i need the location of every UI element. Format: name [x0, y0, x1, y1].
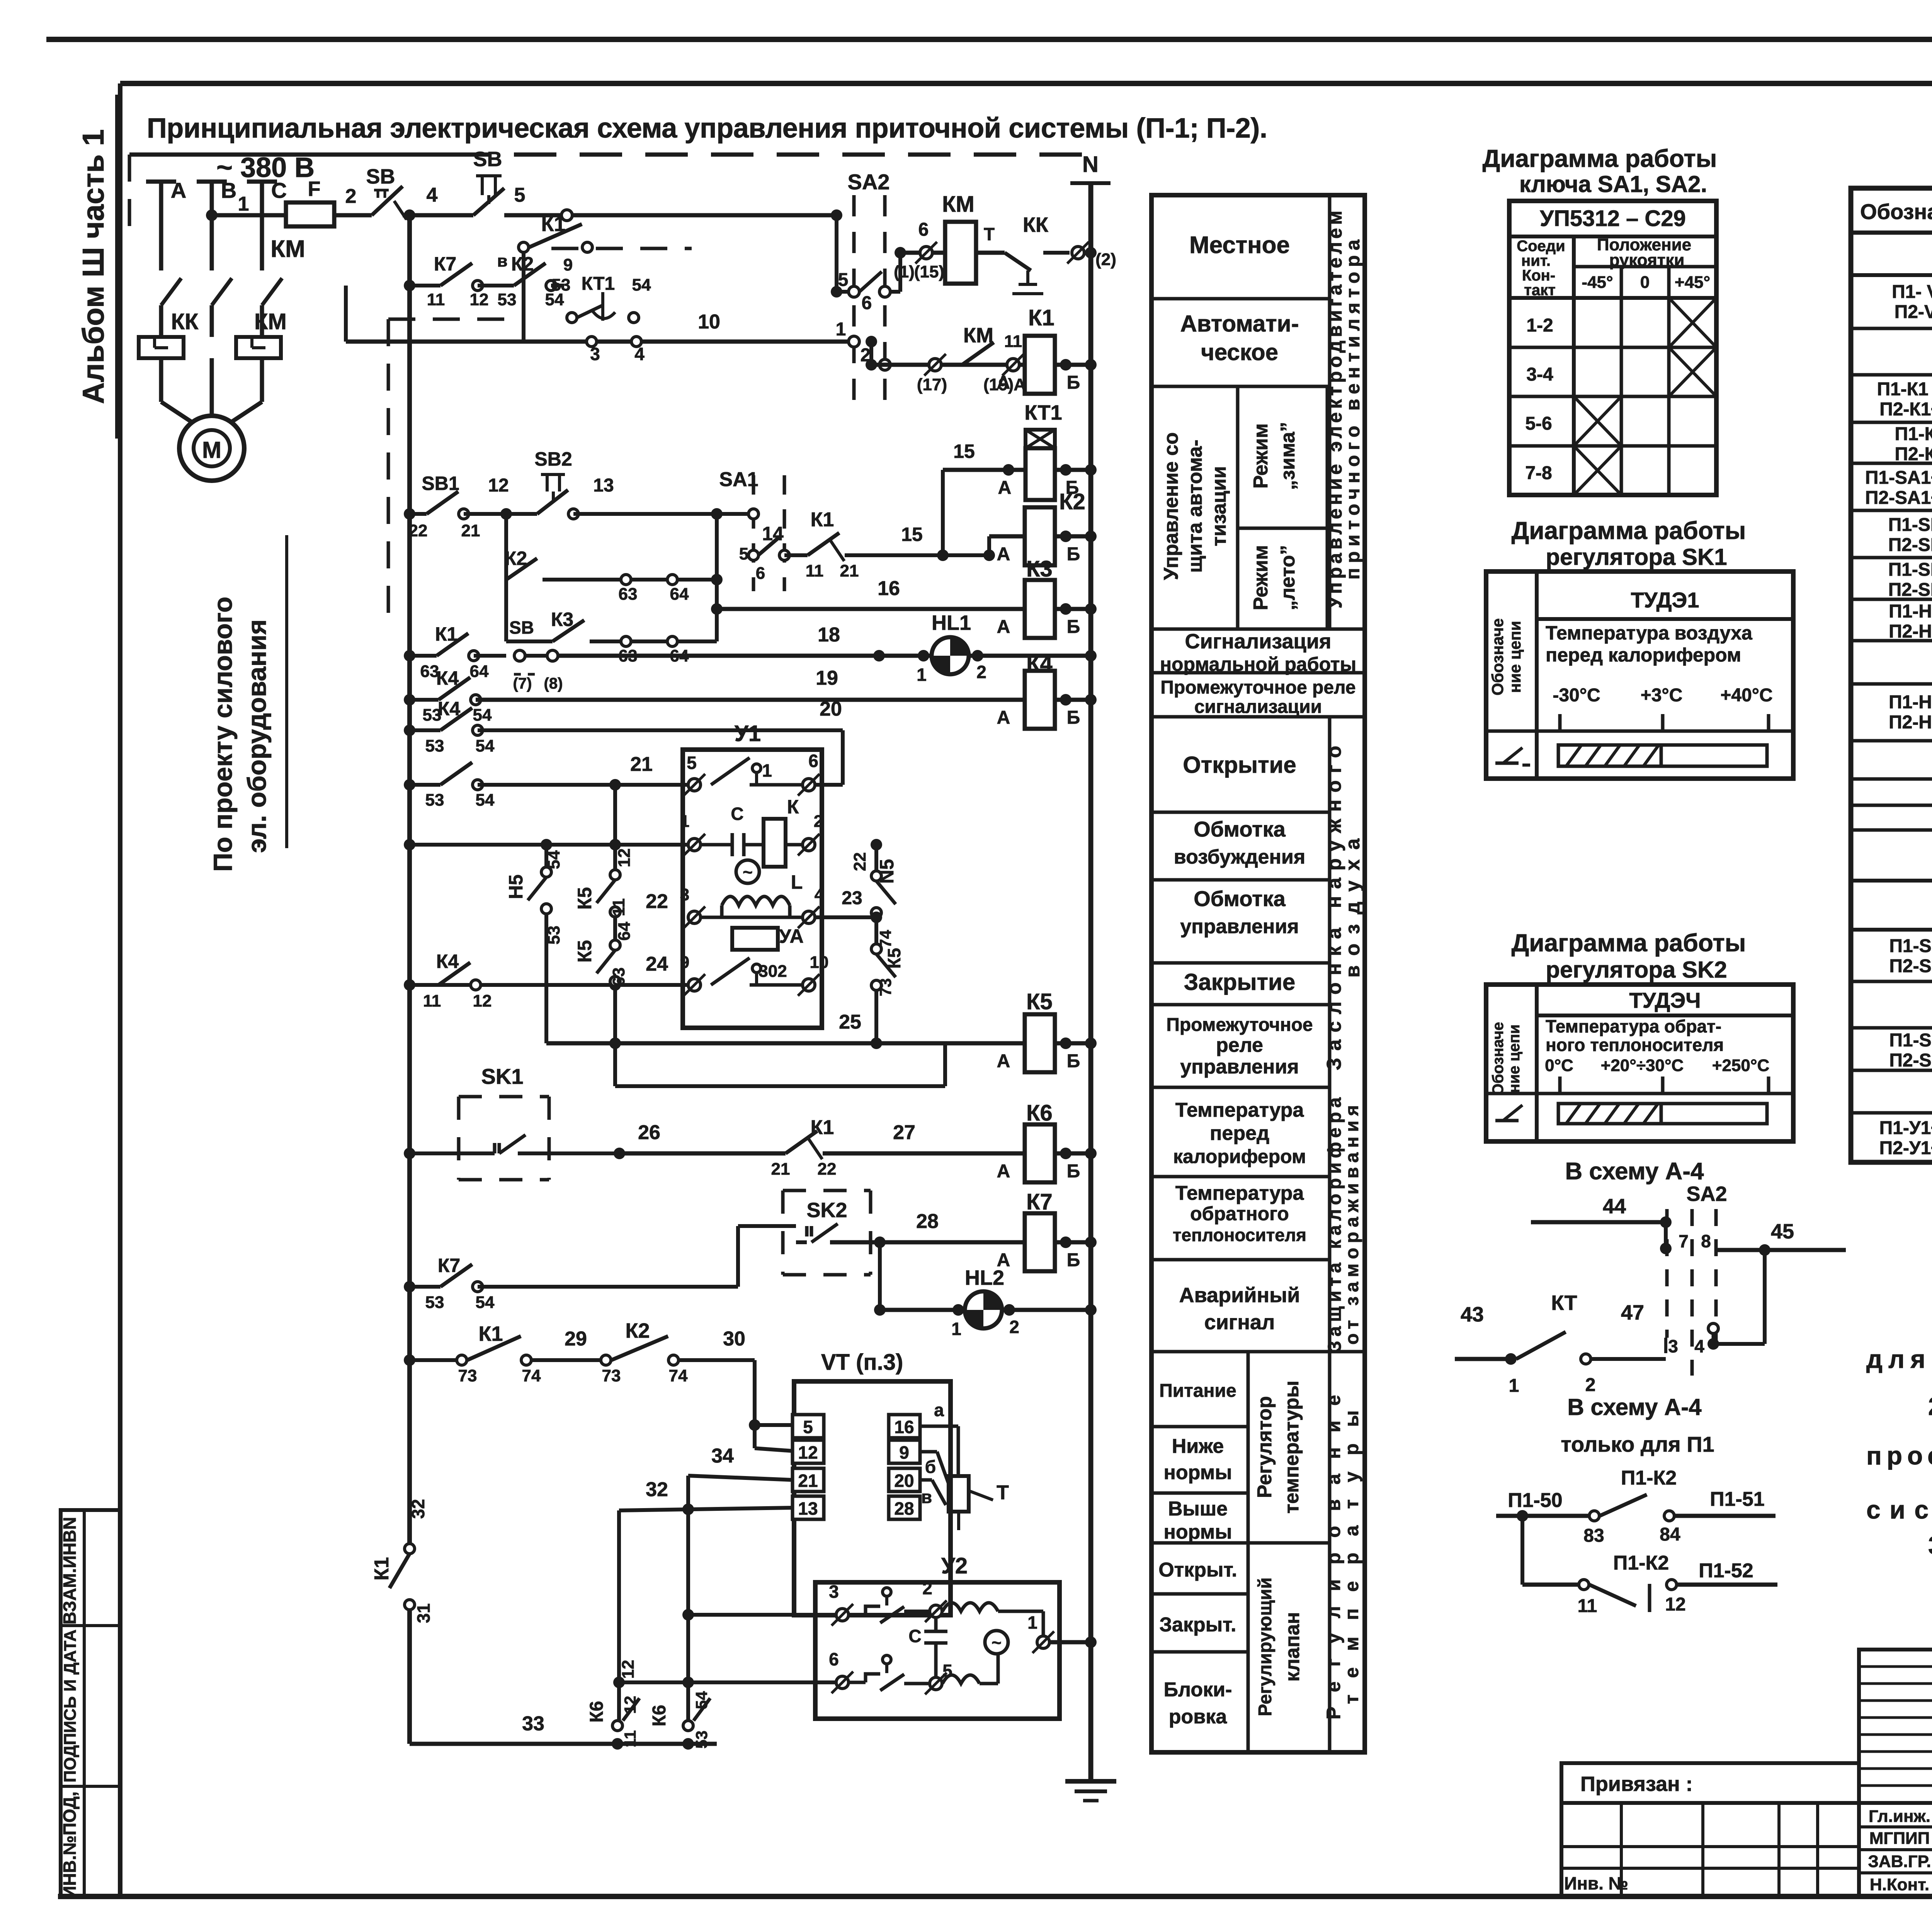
- svg-text:П1-НL2: П1-НL2: [1889, 601, 1932, 622]
- svg-text:температуры: температуры: [1281, 1381, 1303, 1514]
- svg-text:Гл.инж.: Гл.инж.: [1869, 1807, 1930, 1826]
- svg-text:П1-SК2: П1-SК2: [1889, 1030, 1932, 1051]
- rung 4513 wire 33: [410, 1742, 717, 1746]
- svg-text:SB2: SB2: [534, 448, 572, 470]
- rung 2031 wire 21: [404, 779, 415, 791]
- wire 5 to SA2: [561, 210, 572, 221]
- svg-text:Б: Б: [1067, 1250, 1080, 1270]
- svg-text:5-6: 5-6: [1525, 413, 1552, 434]
- svg-text:П1-51: П1-51: [1710, 1488, 1764, 1510]
- frame top rule: [120, 81, 1932, 86]
- contact K1 break on rung 2985: [786, 1131, 817, 1153]
- svg-text:К1: К1: [371, 1557, 393, 1581]
- table row ending 2016: [1851, 777, 1932, 781]
- svg-text:6: 6: [829, 1649, 839, 1669]
- svg-text:в: в: [921, 1487, 932, 1507]
- svg-text:П2-SB2: П2-SB2: [1888, 580, 1932, 600]
- svg-text:П1-SК1: П1-SК1: [1889, 936, 1932, 956]
- svg-text:Инв. №: Инв. №: [1564, 1873, 1628, 1893]
- svg-text:5: 5: [803, 1417, 813, 1437]
- svg-text:Диаграмма работы: Диаграмма работы: [1512, 517, 1746, 544]
- svg-text:П2-VT: П2-VT: [1895, 302, 1932, 322]
- svg-text:19: 19: [816, 667, 838, 689]
- svg-text:2: 2: [922, 1578, 932, 1598]
- svg-text:+40°С: +40°С: [1720, 685, 1772, 706]
- actuator block U1: [683, 750, 822, 1028]
- pushbutton SB start contact: [473, 188, 504, 215]
- svg-text:По проекту силового: По проекту силового: [208, 597, 238, 872]
- svg-text:84: 84: [1660, 1524, 1680, 1545]
- svg-text:управления: управления: [1180, 1056, 1299, 1078]
- svg-text:эл. оборудования: эл. оборудования: [242, 619, 272, 853]
- svg-text:Т: Т: [997, 1481, 1009, 1504]
- svg-text:1: 1: [1027, 1612, 1037, 1633]
- svg-text:Альбом Ш часть 1: Альбом Ш часть 1: [76, 129, 110, 404]
- branch rung 1660 contact K3: [553, 620, 584, 641]
- mini wire 45: [1717, 1248, 1846, 1252]
- svg-text:1: 1: [762, 760, 772, 781]
- svg-text:-30°С: -30°С: [1553, 685, 1600, 706]
- svg-text:К6: К6: [587, 1701, 607, 1723]
- svg-text:б: б: [925, 1457, 936, 1477]
- svg-text:302: 302: [759, 962, 787, 981]
- svg-text:Н.Конт.: Н.Конт.: [1870, 1875, 1929, 1894]
- svg-text:ЗАВ.ГР.: ЗАВ.ГР.: [1868, 1852, 1931, 1871]
- svg-text:53: 53: [425, 1293, 444, 1312]
- svg-text:24: 24: [646, 953, 668, 975]
- rung 2549 wire 24: [410, 983, 688, 987]
- svg-text:К3: К3: [1026, 556, 1053, 582]
- rung 3520 wires 29 30: [404, 1354, 415, 1366]
- svg-text:28: 28: [916, 1210, 939, 1233]
- svg-text:К4: К4: [436, 667, 459, 689]
- svg-text:„лето”: „лето”: [1277, 545, 1299, 610]
- svg-text:64: 64: [670, 585, 689, 604]
- svg-text:К5: К5: [1026, 989, 1053, 1014]
- rung 1437 from SA1: [748, 550, 759, 560]
- svg-text:У1: У1: [735, 721, 761, 746]
- SK1 bar open: [1661, 745, 1767, 766]
- svg-text:Принципиальная электрическая: Принципиальная электрическая схема управ…: [147, 113, 1267, 144]
- relay coil К7: [1025, 1213, 1055, 1271]
- svg-text:74: 74: [876, 930, 895, 948]
- sub columns Режим зима лето: [1236, 386, 1240, 629]
- function table col divider right: [1328, 195, 1332, 629]
- svg-text:34: 34: [711, 1445, 734, 1467]
- rung 884 wire 10: [346, 340, 849, 344]
- svg-text:регулятора SK1: регулятора SK1: [1546, 544, 1727, 570]
- svg-text:а: а: [934, 1400, 944, 1420]
- svg-text:КМ: КМ: [270, 236, 305, 262]
- svg-text:ние цепи: ние цепи: [1506, 621, 1524, 693]
- VT right pin 9: [889, 1440, 920, 1463]
- power bus line: [129, 153, 448, 157]
- svg-text:Обозначен.: Обозначен.: [1860, 199, 1932, 224]
- page top rule: [46, 37, 1932, 42]
- wire fuse to SB: [334, 213, 372, 218]
- svg-text:такт: такт: [1524, 282, 1555, 299]
- components table header: [1851, 231, 1932, 235]
- SK2 axis: [1537, 1092, 1793, 1095]
- svg-text:перед: перед: [1210, 1122, 1269, 1145]
- svg-text:11: 11: [621, 1730, 639, 1747]
- svg-text:Б: Б: [1067, 544, 1080, 565]
- svg-text:SA2: SA2: [848, 170, 890, 194]
- svg-text:К5: К5: [574, 940, 595, 963]
- svg-text:7-8: 7-8: [1525, 463, 1552, 483]
- left bottom table: [1561, 1803, 1859, 1896]
- svg-text:П1-52: П1-52: [1699, 1560, 1753, 1582]
- svg-text:К3: К3: [551, 609, 573, 630]
- svg-text:30: 30: [723, 1328, 745, 1350]
- thermal relay KM heater box: [236, 337, 281, 358]
- svg-text:У2: У2: [941, 1553, 968, 1578]
- relay coil К4: [1025, 671, 1055, 729]
- svg-text:К2: К2: [626, 1319, 650, 1342]
- svg-text:реле: реле: [1216, 1034, 1263, 1056]
- svg-text:П2-У1÷У2: П2-У1÷У2: [1879, 1138, 1932, 1158]
- svg-text:А: А: [997, 372, 1010, 393]
- SK2 switch symbol: [1495, 1119, 1519, 1122]
- svg-text:4: 4: [634, 344, 645, 364]
- svg-text:К1: К1: [479, 1322, 503, 1345]
- svg-text:73: 73: [458, 1366, 477, 1385]
- svg-text:L: L: [791, 871, 803, 893]
- rung 1330 from rail: [404, 508, 415, 520]
- svg-text:П2-SB1: П2-SB1: [1888, 535, 1932, 555]
- U2 pin 3: [836, 1609, 849, 1621]
- svg-text:Привязан :: Привязан :: [1580, 1772, 1693, 1796]
- svg-text:К2: К2: [505, 548, 527, 569]
- svg-text:27: 27: [893, 1121, 915, 1144]
- svg-text:9: 9: [680, 953, 689, 972]
- mini lower wire 2: [1522, 1583, 1578, 1587]
- svg-text:Температура: Температура: [1175, 1099, 1304, 1121]
- svg-text:П1-К2: П1-К2: [1613, 1552, 1669, 1574]
- svg-text:К7: К7: [1026, 1189, 1053, 1214]
- svg-text:К5: К5: [574, 887, 595, 910]
- table row ending 2880: [1851, 1111, 1932, 1115]
- svg-text:калорифером: калорифером: [1173, 1146, 1306, 1167]
- svg-text:21: 21: [771, 1160, 790, 1179]
- switch SB break contact: [372, 186, 403, 215]
- power bus dashed continuation to N: [448, 153, 1092, 157]
- svg-text:HL1: HL1: [932, 611, 971, 634]
- svg-text:1: 1: [836, 319, 846, 340]
- svg-text:Ниже: Ниже: [1172, 1435, 1224, 1458]
- svg-text:N: N: [1082, 152, 1099, 177]
- svg-text:11: 11: [609, 898, 628, 917]
- U2 pin 5 and lower inductor: [930, 1677, 942, 1690]
- svg-text:33: 33: [522, 1713, 544, 1735]
- contact K1 holding: [519, 242, 529, 252]
- function table frame: [1151, 195, 1365, 1752]
- svg-text:SB1: SB1: [422, 473, 459, 494]
- svg-text:21: 21: [461, 521, 480, 540]
- band Аппаратура на щите автоматики: [1851, 273, 1932, 277]
- svg-text:3: 3: [680, 885, 689, 904]
- svg-text:2: 2: [976, 662, 986, 682]
- rung 2186 wire 22: [410, 843, 688, 847]
- svg-text:+20°÷30°С: +20°÷30°С: [1601, 1056, 1684, 1075]
- switch SA2 dashed columns: [852, 195, 856, 413]
- wire 32 to pin 13: [619, 1508, 793, 1510]
- svg-text:21: 21: [798, 1471, 818, 1491]
- contact K1 on rung 3520: [457, 1355, 467, 1365]
- svg-text:6: 6: [756, 564, 765, 583]
- svg-text:К1: К1: [435, 623, 457, 645]
- svg-text:9: 9: [563, 255, 573, 274]
- svg-text:4: 4: [1694, 1336, 1704, 1356]
- svg-text:Температура обрат-: Температура обрат-: [1546, 1016, 1721, 1036]
- svg-text:53: 53: [498, 290, 517, 309]
- svg-text:Н5: Н5: [505, 874, 527, 899]
- pushbutton SB1 break: [427, 492, 458, 514]
- svg-text:С: С: [908, 1626, 921, 1646]
- svg-text:16: 16: [894, 1417, 914, 1437]
- svg-text:29: 29: [565, 1328, 587, 1350]
- svg-text:М: М: [202, 437, 221, 463]
- svg-text:Питание: Питание: [1159, 1381, 1236, 1401]
- svg-text:П2-НL2: П2-НL2: [1889, 621, 1932, 642]
- svg-text:9: 9: [899, 1442, 909, 1463]
- U1 pin row 2374: [688, 911, 701, 923]
- svg-text:3: 3: [1668, 1336, 1678, 1356]
- svg-text:П2-SК1: П2-SК1: [1889, 956, 1932, 976]
- svg-text:перед калорифером: перед калорифером: [1546, 644, 1741, 666]
- revision table A: [1859, 1650, 1932, 1803]
- rung 3330 from rail: [404, 1281, 415, 1293]
- svg-text:53: 53: [692, 1731, 711, 1749]
- svg-text:12: 12: [619, 1660, 638, 1679]
- U2 upper inductor: [942, 1603, 998, 1611]
- svg-text:11: 11: [1004, 332, 1022, 351]
- svg-text:К4: К4: [1026, 651, 1053, 676]
- frame bottom rule: [58, 1894, 1932, 1899]
- svg-text:ного теплоносителя: ного теплоносителя: [1546, 1035, 1724, 1055]
- svg-text:УП5312 – С29: УП5312 – С29: [1540, 206, 1686, 231]
- svg-text:VT (п.3): VT (п.3): [821, 1350, 903, 1375]
- SA key table: [1509, 201, 1716, 495]
- sensor T: [949, 1476, 969, 1512]
- svg-text:22: 22: [646, 890, 668, 913]
- table row ending 850: [1851, 327, 1932, 330]
- svg-text:возбуждения: возбуждения: [1174, 846, 1305, 868]
- left cluster rung 739: [404, 280, 415, 291]
- svg-text:Блоки-: Блоки-: [1164, 1679, 1232, 1701]
- svg-text:63: 63: [619, 585, 638, 604]
- svg-text:4: 4: [815, 885, 824, 904]
- svg-text:А: А: [171, 178, 186, 202]
- svg-text:2: 2: [1009, 1317, 1019, 1337]
- VT right pin 28: [889, 1496, 920, 1519]
- wire rung 755 to KM branch: [890, 290, 900, 294]
- motor leads: [159, 358, 163, 402]
- relay coil К5: [1025, 1014, 1055, 1072]
- svg-text:26: 26: [638, 1121, 660, 1144]
- svg-text:Открыт.: Открыт.: [1158, 1559, 1237, 1581]
- U1 brake coil UA: [732, 928, 778, 950]
- U1 inductor L: [722, 896, 790, 905]
- svg-text:КМ: КМ: [942, 192, 975, 217]
- svg-text:2: 2: [1585, 1375, 1596, 1395]
- svg-text:ТУДЭ1: ТУДЭ1: [1631, 588, 1699, 612]
- contact K7 on rung 739: [440, 263, 472, 286]
- mini lower vertical: [1520, 1516, 1524, 1585]
- svg-text:(7): (7): [513, 675, 532, 692]
- svg-text:11: 11: [806, 561, 824, 580]
- svg-text:3: 3: [829, 1582, 839, 1602]
- table row ending 1917: [1851, 739, 1932, 743]
- svg-text:54: 54: [692, 1691, 711, 1709]
- svg-text:Обмотка: Обмотка: [1194, 886, 1286, 911]
- table row ending 1443: [1851, 556, 1932, 560]
- U1 pin row 2549: [688, 979, 701, 991]
- svg-text:П1-SA1÷SA2: П1-SA1÷SA2: [1865, 468, 1932, 488]
- table row ending 2279: [1851, 879, 1932, 883]
- svg-text:К1: К1: [811, 1116, 834, 1139]
- svg-text:Аварийный: Аварийный: [1179, 1284, 1300, 1307]
- svg-text:31: 31: [413, 1603, 434, 1623]
- svg-text:С: С: [271, 178, 287, 202]
- svg-text:~: ~: [992, 1633, 1002, 1652]
- svg-text:Т: Т: [984, 224, 995, 244]
- svg-text:12: 12: [470, 290, 489, 309]
- svg-text:регулятора SK2: регулятора SK2: [1546, 957, 1727, 983]
- svg-text:Температура воздуха: Температура воздуха: [1546, 622, 1753, 644]
- signature table: [1859, 1803, 1932, 1896]
- svg-text:12: 12: [798, 1442, 818, 1463]
- svg-text:А: А: [997, 1161, 1010, 1182]
- svg-text:К1: К1: [811, 509, 834, 531]
- svg-text:23: 23: [842, 888, 862, 908]
- table row ending 2660: [1851, 1026, 1932, 1030]
- svg-text:ТУДЭЧ: ТУДЭЧ: [1629, 988, 1701, 1012]
- SK2 diagram table: [1486, 985, 1793, 1141]
- svg-text:управления: управления: [1180, 915, 1299, 938]
- KK pushbutton mark: [1026, 270, 1029, 284]
- signal lamp HL2: [878, 1242, 882, 1310]
- svg-text:К7: К7: [438, 1255, 460, 1276]
- svg-text:К5: К5: [884, 948, 904, 969]
- privyazan box: [1561, 1763, 1859, 1803]
- rung 654 to KM coil: [900, 251, 945, 255]
- svg-text:Закрытие: Закрытие: [1184, 969, 1296, 995]
- svg-text:3-4: 3-4: [1526, 364, 1553, 385]
- svg-text:13: 13: [798, 1498, 818, 1519]
- svg-text:П2-КТ: П2-КТ: [1895, 444, 1932, 464]
- svg-text:54: 54: [632, 276, 651, 294]
- fuse F: [286, 202, 334, 226]
- svg-text:43: 43: [1461, 1303, 1484, 1326]
- contact K1 on lamp rung: [437, 633, 468, 656]
- svg-text:1-2: 1-2: [1526, 315, 1553, 336]
- U1 pin row 2186 capacitor and relay K: [688, 838, 701, 851]
- rung 1811 from rail: [404, 694, 415, 706]
- svg-text:ключа SA1, SA2.: ключа SA1, SA2.: [1519, 171, 1707, 197]
- svg-text:ИНВ.№ПОД,: ИНВ.№ПОД,: [60, 1791, 80, 1898]
- svg-text:(2): (2): [1095, 250, 1116, 269]
- svg-text:А: А: [997, 1051, 1010, 1071]
- svg-text:6: 6: [918, 219, 929, 240]
- svg-text:~: ~: [743, 863, 753, 882]
- rung 2985 regulator SK1: [404, 1148, 415, 1159]
- function table rows: [1151, 297, 1330, 301]
- table row ending 1658: [1851, 639, 1932, 643]
- riser to VT pins: [753, 1360, 757, 1448]
- table row ending 1199: [1851, 462, 1932, 465]
- svg-text:К6: К6: [649, 1705, 670, 1726]
- svg-text:КТ1: КТ1: [1024, 401, 1062, 424]
- svg-text:-45°: -45°: [1582, 273, 1613, 292]
- svg-text:Режим: Режим: [1250, 423, 1272, 489]
- svg-text:5: 5: [687, 753, 697, 773]
- svg-text:11: 11: [427, 290, 445, 309]
- table row ending 2084: [1851, 804, 1932, 807]
- svg-text:А: А: [997, 544, 1010, 565]
- svg-text:П1-SB2: П1-SB2: [1888, 560, 1932, 580]
- svg-text:SA1: SA1: [719, 468, 758, 491]
- switch SB mark on lamp rung: [514, 650, 525, 661]
- svg-text:63: 63: [609, 968, 628, 986]
- svg-text:теплоносителя: теплоносителя: [1173, 1225, 1306, 1245]
- svg-text:для приточных систем П1 и П2.: для приточных систем П1 и П2.: [1866, 1345, 1932, 1373]
- SK2 bar hatched: [1558, 1104, 1661, 1124]
- contactor KM main contacts: [161, 278, 181, 305]
- svg-text:15: 15: [901, 524, 923, 545]
- svg-text:(15): (15): [914, 262, 944, 281]
- riser to K2 coil: [983, 549, 995, 561]
- components table frame: [1851, 188, 1932, 1162]
- svg-text:(17): (17): [917, 375, 947, 394]
- rung 944 wires: [871, 363, 1025, 367]
- svg-text:Управление со: Управление со: [1160, 432, 1182, 580]
- table row ending 2148: [1851, 828, 1932, 832]
- rung 1890 wire 20: [404, 724, 415, 736]
- svg-text:HL2: HL2: [965, 1266, 1004, 1289]
- svg-text:П2-К1÷К7: П2-К1÷К7: [1879, 399, 1932, 420]
- svg-text:12: 12: [488, 475, 509, 496]
- SK1 axis: [1537, 730, 1793, 733]
- svg-text:обратного: обратного: [1190, 1203, 1289, 1225]
- svg-text:П2-SA1÷SA2: П2-SA1÷SA2: [1865, 488, 1932, 508]
- svg-text:КТ: КТ: [1551, 1291, 1577, 1315]
- U1 AC source: [736, 860, 759, 883]
- svg-text:53: 53: [425, 736, 444, 755]
- svg-text:54: 54: [544, 850, 563, 869]
- svg-text:53: 53: [425, 791, 444, 810]
- svg-text:В: В: [221, 178, 236, 202]
- power section dashed boundary: [388, 318, 526, 321]
- U2 pin 2 and capacitor: [930, 1605, 942, 1617]
- svg-text:20: 20: [894, 1471, 914, 1491]
- svg-text:А: А: [997, 707, 1010, 728]
- svg-text:21: 21: [630, 753, 653, 776]
- time relay coil KT1: [1026, 430, 1055, 448]
- SA2 contact 5-6: [849, 286, 859, 297]
- svg-text:ческое: ческое: [1201, 339, 1278, 365]
- riser to U1 pin6: [841, 730, 845, 785]
- svg-text:10: 10: [810, 953, 829, 972]
- rung 2700 wire 25 to K5 coil: [546, 1041, 1025, 1046]
- svg-text:(8): (8): [544, 675, 563, 692]
- svg-text:Диаграмма работы: Диаграмма работы: [1512, 929, 1746, 957]
- svg-text:нормы: нормы: [1163, 1461, 1232, 1484]
- power bus corner dashed: [128, 155, 131, 241]
- contact K2 on rung 3520: [601, 1355, 611, 1365]
- phase B lead: [210, 182, 214, 270]
- U2 AC source: [985, 1631, 1008, 1654]
